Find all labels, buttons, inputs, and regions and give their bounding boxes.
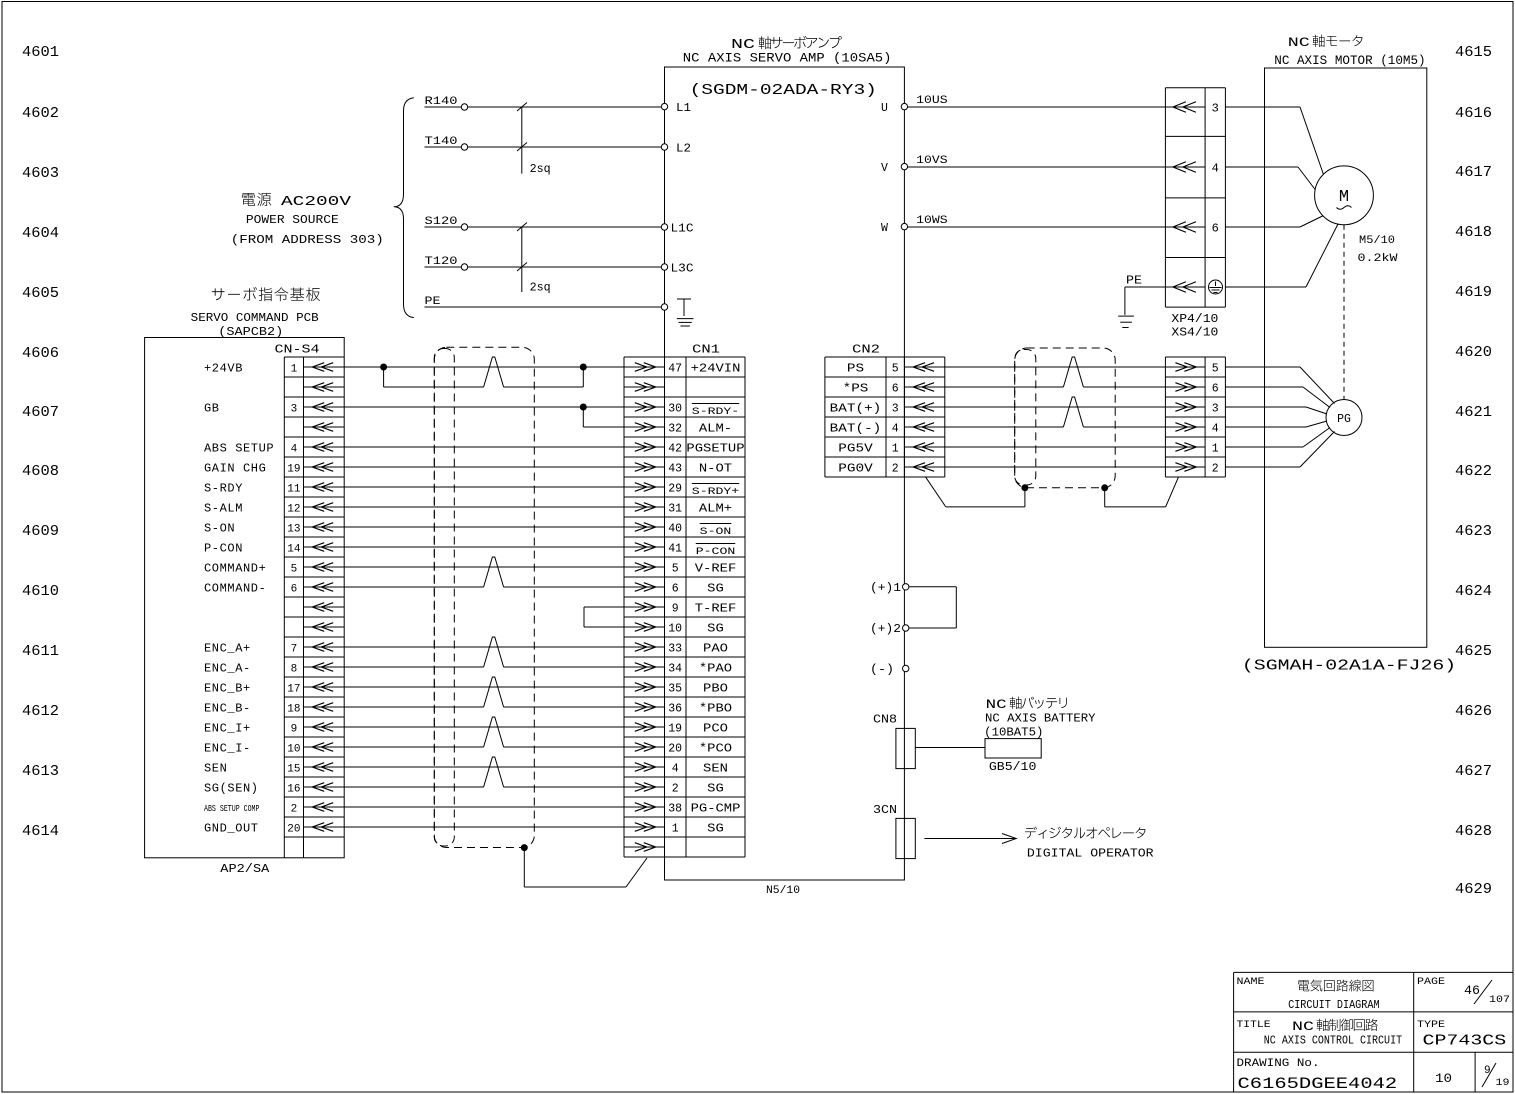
wire S-RDY to CN1-29: [344, 486, 624, 488]
svg-text:NC AXIS SERVO AMP (10SA5): NC AXIS SERVO AMP (10SA5): [683, 52, 892, 66]
shield drain to CN2 shell: [926, 477, 1028, 507]
connector CN-S4 pin 2 ABS SETUP COMP: [204, 803, 344, 816]
connector CN2 pin 4 BAT(-): [830, 422, 945, 436]
wire XP4-6 to motor W: [1225, 216, 1323, 228]
svg-text:4604: 4604: [22, 225, 59, 242]
connector CN1 pin 34 *PAO: [624, 662, 732, 676]
connector CN-S4 pin 5 COMMAND+: [204, 562, 344, 576]
svg-text:ENC_B-: ENC_B-: [204, 702, 251, 716]
connector CN1 pin 2 SG: [624, 782, 724, 796]
connector CN-S4 pin 1 +24VB: [204, 362, 344, 376]
svg-text:S-RDY+: S-RDY+: [692, 487, 739, 498]
svg-text:4626: 4626: [1455, 703, 1492, 720]
connector XP4 pin 6: [1165, 222, 1218, 236]
connector XP4 pin 4: [1165, 162, 1218, 176]
cable shield right inner: [1015, 350, 1036, 486]
svg-text:4: 4: [291, 444, 298, 456]
svg-text:4601: 4601: [22, 44, 59, 61]
wire gauge mark 2sq group 1: [517, 103, 551, 177]
svg-text:SERVO COMMAND PCB: SERVO COMMAND PCB: [191, 312, 319, 325]
svg-text:3CN: 3CN: [873, 803, 897, 817]
wire (+)1 to (+)2 link: [909, 587, 956, 628]
connector CN-S4 pin 3 GB: [204, 402, 344, 416]
svg-text:107: 107: [1489, 995, 1510, 1006]
svg-text:6: 6: [1212, 222, 1219, 236]
servo amp U1 title NC axis servo amp: [683, 36, 892, 66]
svg-text:15: 15: [287, 764, 300, 776]
terminal L3C: [661, 263, 693, 276]
svg-text:(+)2: (+)2: [870, 623, 901, 636]
svg-text:4619: 4619: [1455, 284, 1492, 301]
svg-text:40: 40: [668, 523, 682, 536]
terminal (-): [870, 664, 909, 677]
svg-text:4621: 4621: [1455, 404, 1492, 421]
svg-text:2: 2: [1212, 463, 1219, 476]
svg-text:42: 42: [668, 443, 682, 456]
svg-text:1: 1: [892, 443, 899, 456]
svg-text:ABS SETUP: ABS SETUP: [204, 442, 274, 456]
connector CN1 pin 5 V-REF: [624, 562, 736, 576]
connector CN-S4 pin 20 GND_OUT: [204, 822, 344, 836]
svg-text:PG0V: PG0V: [838, 462, 873, 476]
svg-text:*PAO: *PAO: [699, 662, 732, 676]
title block sheet number 10: [1435, 1071, 1452, 1086]
connector CN-S4 spare row: [304, 623, 345, 632]
svg-text:9: 9: [672, 603, 679, 616]
svg-text:33: 33: [668, 643, 682, 656]
svg-text:*PBO: *PBO: [699, 702, 732, 716]
wire ENC_I- to CN1-20: [344, 717, 624, 747]
svg-text:W: W: [881, 222, 888, 235]
svg-text:19: 19: [287, 464, 300, 476]
svg-text:L2: L2: [676, 143, 691, 156]
wire COMMAND- to CN1-6: [344, 557, 624, 587]
svg-text:S-RDY: S-RDY: [204, 482, 243, 496]
svg-text:0.2kW: 0.2kW: [1358, 253, 1398, 265]
connector CN2 pin 3 BAT(+): [830, 402, 945, 416]
svg-text:*PS: *PS: [843, 382, 869, 396]
svg-text:ENC_B+: ENC_B+: [204, 682, 251, 696]
svg-text:+24VIN: +24VIN: [691, 362, 741, 376]
svg-text:14: 14: [287, 544, 301, 556]
connector XP4/XS4 power frame: [1165, 88, 1225, 307]
wire ENC_B+ to CN1-35: [344, 686, 624, 688]
connector CN1 spare row: [624, 383, 665, 392]
wire XP4-3 to motor U: [1225, 107, 1323, 175]
svg-text:SG: SG: [707, 822, 724, 836]
svg-text:S-ON: S-ON: [204, 522, 235, 536]
svg-text:4623: 4623: [1455, 523, 1492, 540]
connector CN1 pin 47 +24VIN: [624, 362, 740, 376]
svg-text:4613: 4613: [22, 763, 59, 780]
wire ENC_I+ to CN1-19: [344, 726, 624, 728]
terminal L1C: [661, 223, 693, 236]
svg-text:4611: 4611: [22, 643, 59, 660]
connector XS4 pin 1: [1165, 443, 1218, 456]
svg-text:NC: NC: [986, 697, 1007, 712]
connector XS4 pin 4: [1165, 423, 1218, 436]
svg-text:4610: 4610: [22, 583, 59, 600]
connector CN1 pin 40 S-ON: [624, 523, 731, 539]
connector CN-S4 spare row: [304, 383, 345, 392]
connector CN1 pin 43 N-OT: [624, 462, 732, 476]
svg-text:17: 17: [287, 684, 300, 696]
motor-PG dashed link: [1343, 225, 1345, 400]
wire T140 to L2: [425, 136, 662, 150]
svg-text:(+)1: (+)1: [870, 582, 901, 595]
svg-text:SEN: SEN: [703, 762, 728, 776]
svg-text:S-RDY-: S-RDY-: [692, 407, 739, 418]
svg-text:PAO: PAO: [703, 642, 728, 656]
connector CN1 pin 20 *PCO: [624, 742, 732, 756]
connector CN-S4 pin 9 ENC_I+: [204, 722, 344, 736]
svg-text:34: 34: [668, 663, 682, 676]
wire XS4 row 3 to PG: [1225, 407, 1327, 414]
connector CN2 label: [852, 343, 880, 357]
svg-text:M5/10: M5/10: [1359, 235, 1395, 247]
svg-text:(SGMAH-02A1A-FJ26): (SGMAH-02A1A-FJ26): [1242, 659, 1456, 675]
svg-text:SEN: SEN: [204, 762, 227, 776]
title block PAGE cell: [1417, 977, 1510, 1006]
svg-text:(10BAT5): (10BAT5): [984, 727, 1043, 740]
net N5/10 label: [766, 885, 800, 897]
connector CN1 pin 10 SG: [624, 622, 724, 636]
svg-text:DIGITAL OPERATOR: DIGITAL OPERATOR: [1027, 848, 1154, 861]
PG encoder symbol: [1326, 400, 1362, 436]
svg-text:4616: 4616: [1455, 105, 1492, 122]
svg-text:PS: PS: [847, 362, 864, 376]
wire PE to amp: [425, 296, 662, 308]
svg-text:NC: NC: [1288, 35, 1310, 50]
jumper CN1-9 to CN1-10 T-REF/SG: [584, 607, 624, 627]
svg-text:NC AXIS MOTOR (10M5): NC AXIS MOTOR (10M5): [1274, 54, 1425, 68]
connector CN1 pin 38 PG-CMP: [624, 802, 740, 816]
motor box (SGMAH-02A1A-FJ26): [1242, 68, 1456, 675]
svg-text:NAME: NAME: [1237, 977, 1265, 988]
svg-text:NC AXIS CONTROL CIRCUIT: NC AXIS CONTROL CIRCUIT: [1264, 1035, 1402, 1048]
connector CN-S4 pin 17 ENC_B+: [204, 682, 344, 696]
svg-text:4625: 4625: [1455, 643, 1492, 660]
connector XP4/XS4 label: [1171, 312, 1218, 340]
connector CN-S4 pin 7 ENC_A+: [204, 642, 344, 656]
svg-text:PG-CMP: PG-CMP: [691, 802, 741, 816]
svg-text:SG: SG: [707, 582, 724, 596]
connector CN2 pin 1 PG5V: [838, 442, 945, 456]
title block NAME cell: [1237, 977, 1380, 1012]
svg-text:30: 30: [668, 403, 682, 416]
connector XS4 pin 2: [1165, 463, 1218, 476]
svg-text:SG: SG: [707, 622, 724, 636]
wire XP4-PE to motor frame: [1225, 224, 1338, 287]
wire BAT(+) to XS4-3: [945, 406, 1166, 408]
svg-text:SG(SEN): SG(SEN): [204, 782, 259, 796]
connector CN1 pin 9 T-REF: [624, 602, 736, 616]
CN1 shell drain wire: [521, 845, 647, 887]
svg-text:9: 9: [1484, 1065, 1491, 1077]
connector CN1 pin 41 P-CON: [624, 543, 735, 559]
svg-text:C6165DGEE4042: C6165DGEE4042: [1238, 1075, 1398, 1093]
svg-text:N-OT: N-OT: [699, 462, 732, 476]
connector CN-S4 pin 10 ENC_I-: [204, 742, 344, 756]
svg-text:4612: 4612: [22, 703, 59, 720]
wire BAT(-) to XS4-4: [945, 397, 1166, 427]
svg-text:PE: PE: [425, 296, 441, 308]
svg-text:5: 5: [892, 363, 899, 376]
wire S-ALM to CN1-31: [344, 506, 624, 508]
wire GB branch to CN1-32 ALM-: [583, 407, 624, 427]
wire XS4 row 4 to PG: [1225, 421, 1327, 427]
svg-text:4615: 4615: [1455, 44, 1492, 61]
svg-text:CIRCUIT DIAGRAM: CIRCUIT DIAGRAM: [1288, 999, 1380, 1012]
connector CN-S4 label: [275, 343, 320, 357]
svg-text:DRAWING No.: DRAWING No.: [1237, 1058, 1320, 1070]
svg-text:46: 46: [1464, 983, 1480, 998]
svg-text:T-REF: T-REF: [695, 602, 737, 616]
svg-text:16: 16: [287, 784, 300, 796]
wire S-ON to CN1-40: [344, 526, 624, 528]
connector CN-S4 pin 14 P-CON: [204, 542, 344, 556]
title block TYPE cell: [1417, 1020, 1506, 1050]
power source brace: [394, 98, 414, 318]
svg-text:1: 1: [291, 364, 298, 376]
wire PE to earth ground: [1118, 275, 1165, 328]
terminal PE with ground: [661, 299, 693, 326]
svg-text:6: 6: [291, 584, 298, 596]
arrow 3CN to digital operator: [924, 834, 1016, 844]
svg-text:3: 3: [1212, 403, 1219, 416]
connector CN2 frame: [825, 357, 945, 477]
svg-text:BAT(+): BAT(+): [830, 402, 882, 416]
svg-text:6: 6: [892, 383, 899, 396]
connector CN1 pin 29 S-RDY+: [624, 483, 739, 499]
svg-text:4629: 4629: [1455, 881, 1492, 898]
svg-text:COMMAND+: COMMAND+: [204, 562, 266, 576]
svg-text:PGSETUP: PGSETUP: [686, 442, 744, 456]
svg-text:10WS: 10WS: [916, 215, 948, 227]
connector CN2 pin 2 PG0V: [838, 462, 945, 476]
svg-text:CN2: CN2: [852, 343, 880, 357]
terminal V wire 10VS: [881, 155, 1165, 175]
svg-text:S120: S120: [425, 216, 458, 228]
svg-text:S-ALM: S-ALM: [204, 502, 243, 516]
terminal (+)2: [870, 623, 909, 636]
svg-text:AC200V: AC200V: [281, 194, 352, 210]
svg-text:3: 3: [1212, 102, 1219, 116]
svg-text:7: 7: [291, 644, 298, 656]
svg-text:TITLE: TITLE: [1237, 1020, 1271, 1031]
connector CN1 frame: [624, 357, 745, 857]
wire R140 to L1: [425, 96, 662, 110]
svg-text:1: 1: [672, 823, 679, 836]
wire +24VB to CN1-47: [344, 364, 624, 370]
svg-text:47: 47: [668, 363, 682, 376]
svg-text:4609: 4609: [22, 523, 59, 540]
servo command PCB box AP2/SA: [145, 338, 345, 877]
connector CN1 pin 4 SEN: [624, 762, 728, 776]
svg-text:4624: 4624: [1455, 583, 1492, 600]
servo amp U1 box (SGDM-02ADA-RY3): [665, 67, 905, 880]
svg-text:PAGE: PAGE: [1417, 977, 1445, 988]
svg-text:CN-S4: CN-S4: [275, 343, 320, 357]
title block frame: [1234, 972, 1513, 1092]
connector XS4 pin 3: [1165, 403, 1218, 416]
wire S120 to L1C: [425, 216, 662, 230]
connector CN1 pin 32 ALM-: [624, 422, 732, 436]
connector CN1 pin 36 *PBO: [624, 702, 732, 716]
svg-text:4602: 4602: [22, 105, 59, 122]
wire CN8 to battery: [915, 747, 985, 749]
terminal W wire 10WS: [881, 215, 1165, 235]
connector CN1 pin 30 S-RDY-: [624, 403, 739, 419]
svg-text:L1: L1: [676, 102, 691, 115]
wire ENC_A- to CN1-34: [344, 637, 624, 667]
connector CN2 pin 6 *PS: [843, 382, 945, 396]
wire XP4-4 to motor V: [1225, 167, 1315, 190]
connector XS4 PG frame: [1165, 357, 1225, 477]
svg-text:ENC_A+: ENC_A+: [204, 642, 251, 656]
right margin line numbers 4615-4629: [1455, 44, 1492, 898]
power source label: [231, 193, 384, 247]
svg-text:35: 35: [668, 683, 682, 696]
svg-text:19: 19: [668, 723, 682, 736]
svg-text:L3C: L3C: [671, 263, 694, 276]
svg-text:4: 4: [892, 423, 899, 436]
svg-text:ENC_I+: ENC_I+: [204, 722, 251, 736]
svg-text:+24VB: +24VB: [204, 362, 243, 376]
wire SEN to CN1-4: [344, 766, 624, 768]
svg-text:S-ON: S-ON: [700, 527, 732, 538]
connector CN-S4 pin 18 ENC_B-: [204, 702, 344, 716]
svg-text:4: 4: [1212, 423, 1219, 436]
title block DRAWING No cell: [1237, 1058, 1398, 1093]
svg-text:2sq: 2sq: [530, 282, 551, 295]
connector CN1 pin 33 PAO: [624, 642, 728, 656]
svg-text:SG: SG: [707, 782, 724, 796]
svg-text:4627: 4627: [1455, 763, 1492, 780]
connector CN8: [873, 713, 915, 769]
connector CN-S4 spare row: [304, 423, 345, 432]
connector CN-S4 pin 13 S-ON: [204, 522, 344, 536]
connector CN1 pin 35 PBO: [624, 682, 728, 696]
svg-text:19: 19: [1496, 1078, 1510, 1089]
connector CN-S4 pin 15 SEN: [204, 762, 344, 776]
svg-text:4: 4: [1212, 162, 1219, 176]
svg-text:T120: T120: [425, 256, 458, 268]
svg-text:(FROM ADDRESS 303): (FROM ADDRESS 303): [231, 234, 384, 247]
svg-text:10VS: 10VS: [916, 155, 948, 167]
svg-text:POWER SOURCE: POWER SOURCE: [246, 214, 339, 227]
svg-text:12: 12: [287, 504, 300, 516]
svg-text:ABS SETUP COMP: ABS SETUP COMP: [204, 803, 260, 814]
connector XP4 pin PE: [1165, 280, 1222, 294]
svg-text:PG: PG: [1337, 413, 1351, 426]
svg-text:5: 5: [672, 563, 679, 576]
connector CN-S4 pin 11 S-RDY: [204, 482, 344, 496]
wire GB to CN1-30: [344, 404, 624, 410]
wire ABS SETUP COMP to CN1-38: [344, 806, 624, 808]
svg-text:P-CON: P-CON: [204, 542, 243, 556]
svg-text:32: 32: [668, 423, 682, 436]
svg-text:9: 9: [291, 724, 298, 736]
wire GAIN CHG to CN1-43: [344, 466, 624, 468]
svg-text:V-REF: V-REF: [695, 562, 737, 576]
svg-text:ALM+: ALM+: [699, 502, 732, 516]
wire gauge mark 2sq group 2: [517, 223, 551, 295]
title block sheet 9/19: [1482, 1063, 1510, 1089]
svg-text:5: 5: [291, 564, 298, 576]
svg-text:CP743CS: CP743CS: [1423, 1034, 1507, 1050]
svg-text:4603: 4603: [22, 165, 59, 182]
svg-text:L1C: L1C: [671, 223, 694, 236]
connector CN1 pin 19 PCO: [624, 722, 728, 736]
connector CN1 pin 6 SG: [624, 582, 724, 596]
wire XS4 row 1 to PG: [1225, 367, 1334, 404]
svg-text:10: 10: [668, 623, 682, 636]
svg-text:38: 38: [668, 803, 682, 816]
svg-text:4: 4: [672, 763, 679, 776]
svg-text:GAIN CHG: GAIN CHG: [204, 462, 266, 476]
cable shield left outer: [434, 347, 534, 847]
svg-text:CN1: CN1: [692, 343, 720, 357]
wire +24VB pair loop: [384, 357, 584, 387]
svg-text:NC AXIS BATTERY: NC AXIS BATTERY: [985, 713, 1096, 726]
connector XP4 pin 3: [1165, 102, 1218, 116]
wire XS4 row 6 to PG: [1225, 432, 1334, 468]
svg-text:20: 20: [668, 743, 682, 756]
svg-text:29: 29: [668, 483, 682, 496]
connector CN-S4 pin 4 ABS SETUP: [204, 442, 344, 456]
wire XS4 row 2 to PG: [1225, 387, 1330, 408]
terminal U wire 10US: [881, 95, 1165, 115]
svg-text:(-): (-): [870, 664, 894, 677]
svg-text:COMMAND-: COMMAND-: [204, 582, 266, 596]
svg-text:43: 43: [668, 463, 682, 476]
svg-text:4628: 4628: [1455, 823, 1492, 840]
connector CN-S4 pin 16 SG(SEN): [204, 782, 344, 796]
connector CN-S4 pin 6 COMMAND-: [204, 582, 344, 596]
svg-text:2sq: 2sq: [530, 163, 551, 176]
wire XS4 row 5 to PG: [1225, 428, 1330, 448]
connector CN1 pin 1 SG: [624, 822, 724, 836]
svg-text:GND_OUT: GND_OUT: [204, 822, 259, 836]
svg-text:4606: 4606: [22, 345, 59, 362]
svg-text:8: 8: [291, 664, 298, 676]
svg-text:CN8: CN8: [873, 713, 897, 727]
svg-text:P-CON: P-CON: [696, 547, 736, 558]
svg-text:PG5V: PG5V: [838, 442, 873, 456]
svg-text:XP4/10: XP4/10: [1171, 312, 1218, 326]
svg-text:4620: 4620: [1455, 344, 1492, 361]
svg-text:3: 3: [892, 403, 899, 416]
svg-text:11: 11: [287, 484, 301, 496]
connector CN-S4 pin 12 S-ALM: [204, 502, 344, 516]
title block TITLE cell: [1237, 1019, 1403, 1048]
connector CN2 pin 5 PS: [847, 362, 945, 376]
svg-text:ENC_A-: ENC_A-: [204, 662, 251, 676]
connector CN1 spare row: [624, 843, 665, 852]
cable shield left inner: [434, 349, 454, 847]
svg-text:18: 18: [287, 704, 300, 716]
svg-text:PBO: PBO: [703, 682, 728, 696]
terminal L2: [661, 143, 691, 156]
svg-text:AP2/SA: AP2/SA: [220, 862, 270, 876]
connector 3CN: [873, 803, 915, 859]
servo command PCB title: [191, 287, 320, 339]
svg-text:T140: T140: [425, 136, 458, 148]
digital operator label: [1025, 827, 1154, 861]
wire ENC_A+ to CN1-33: [344, 646, 624, 648]
terminal L1: [661, 102, 691, 115]
